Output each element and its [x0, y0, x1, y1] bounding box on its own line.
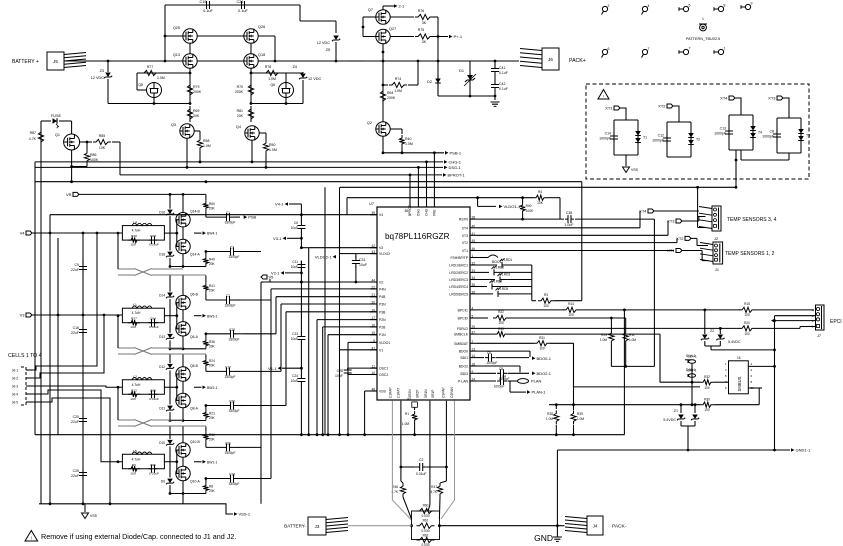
crossover twisted pair 3 — [134, 420, 152, 427]
svg-text:D1: D1 — [459, 69, 464, 73]
wire L5 loop links — [164, 461, 176, 463]
dashed option box — [586, 84, 809, 179]
svg-text:0.1uF: 0.1uF — [499, 71, 508, 75]
svg-text:VSS-1: VSS-1 — [239, 512, 251, 517]
wire FSH line with hook — [477, 257, 488, 259]
svg-text:1000pF: 1000pF — [494, 385, 505, 389]
svg-text:20K: 20K — [209, 206, 216, 210]
svg-text:GND1-1: GND1-1 — [796, 448, 811, 453]
svg-text:R8: R8 — [209, 485, 213, 489]
svg-text:4.7uH: 4.7uH — [132, 229, 141, 233]
svg-text:Q8-A: Q8-A — [190, 407, 199, 411]
svg-text:R47: R47 — [431, 485, 437, 489]
connector J1 temp sensors 12 — [713, 242, 723, 264]
wire Q18 gate bottom — [251, 103, 303, 105]
net PSB flag — [244, 215, 247, 219]
resistor R75 3K — [415, 34, 433, 39]
svg-text:R30: R30 — [704, 398, 710, 402]
wire BPCID line — [477, 317, 488, 319]
svg-text:R58: R58 — [203, 139, 209, 143]
net flag XT1 — [614, 106, 620, 110]
svg-text:J7: J7 — [817, 334, 821, 338]
diode D11 — [169, 395, 171, 405]
svg-text:FSRLD: FSRLD — [457, 327, 469, 331]
capacitor C12 3300pF — [227, 333, 238, 335]
wire SMBDAT line — [477, 342, 534, 344]
svg-text:4.7uH: 4.7uH — [132, 383, 141, 387]
connector J6 cells dashed — [21, 367, 26, 405]
test point X8 — [718, 6, 723, 11]
resistor R15 100 — [739, 307, 755, 312]
svg-text:1.0uF: 1.0uF — [565, 223, 574, 227]
resistor R22 100 — [493, 315, 509, 320]
svg-text:100: 100 — [744, 332, 750, 336]
test point X2 — [602, 6, 607, 11]
svg-text:Q8: Q8 — [138, 83, 143, 87]
wire gate columns upper FETs — [190, 43, 251, 54]
svg-text:R50: R50 — [269, 143, 275, 147]
net GND1-1 flag — [791, 448, 794, 452]
wire SMBCLK line — [477, 333, 494, 335]
svg-text:J6-5: J6-5 — [12, 401, 18, 405]
svg-text:D13: D13 — [159, 335, 165, 339]
svg-text:P4N: P4N — [379, 287, 386, 291]
svg-text:10K: 10K — [99, 146, 106, 150]
svg-text:22uF: 22uF — [71, 474, 79, 478]
svg-text:200K: 200K — [193, 90, 202, 94]
diode D14 column — [169, 276, 171, 292]
svg-text:Q6-B: Q6-B — [190, 293, 199, 297]
svg-text:22uF: 22uF — [71, 420, 79, 424]
connector J2 temp sensors 34 — [712, 206, 721, 231]
transformer T4 — [750, 126, 756, 131]
net flag BW4-1 — [203, 231, 206, 235]
svg-text:R60: R60 — [423, 504, 429, 508]
svg-text:1.0M: 1.0M — [268, 77, 276, 81]
svg-text:2-1: 2-1 — [399, 4, 406, 9]
svg-text:J3: J3 — [315, 524, 320, 529]
svg-text:10uF: 10uF — [359, 263, 367, 267]
transformer T2 — [688, 133, 694, 138]
svg-text:1.0M: 1.0M — [394, 89, 402, 93]
svg-text:C16: C16 — [73, 326, 79, 330]
capacitor C20 22uF — [82, 415, 84, 426]
capacitor C2 0.01uF — [416, 466, 427, 468]
resistor R58 1.0M — [194, 130, 200, 132]
svg-text:DSG-1: DSG-1 — [449, 165, 462, 170]
svg-text:CHG-1: CHG-1 — [449, 160, 462, 165]
svg-text:10uF: 10uF — [291, 226, 298, 230]
svg-text:C31: C31 — [359, 258, 365, 262]
svg-text:RSTN: RSTN — [459, 218, 469, 222]
warning triangle in box — [598, 90, 609, 100]
svg-text:20K: 20K — [209, 489, 216, 493]
net flag BW3-1 — [203, 314, 206, 318]
resistor R61 0.030 — [417, 523, 435, 528]
svg-text:Q3: Q3 — [171, 123, 176, 127]
wire V4 line — [50, 214, 377, 216]
diode D16 column — [169, 194, 171, 208]
resistor R39 1.0M — [571, 410, 576, 424]
svg-text:XT2: XT2 — [462, 241, 468, 245]
svg-text:V3-1: V3-1 — [273, 236, 282, 241]
svg-text:J6-4: J6-4 — [12, 393, 18, 397]
wire L4 loop links — [164, 232, 176, 234]
svg-text:PSB-1: PSB-1 — [450, 150, 462, 155]
transistor Q10-B — [176, 443, 190, 457]
net XT1 flag right — [676, 249, 682, 253]
svg-text:LRD3/ERC3: LRD3/ERC3 — [449, 278, 468, 282]
svg-text:V2: V2 — [379, 281, 383, 285]
wire loop T4 — [735, 98, 741, 115]
svg-text:1000pF: 1000pF — [652, 139, 664, 143]
svg-text:Q10-B: Q10-B — [190, 440, 201, 444]
svg-text:C41: C41 — [499, 66, 505, 70]
svg-text:3300pF: 3300pF — [229, 482, 240, 486]
svg-text:SR2P: SR2P — [416, 390, 420, 398]
crossover twisted pair 1 — [134, 269, 152, 276]
resistor R21 20K — [205, 406, 207, 410]
svg-text:Z4: Z4 — [293, 65, 297, 69]
svg-text:200K: 200K — [235, 90, 244, 94]
svg-text:P4B: P4B — [379, 295, 386, 299]
svg-text:BW1-1: BW1-1 — [207, 460, 217, 464]
svg-text:Q13: Q13 — [173, 53, 180, 57]
resistor R36 20K — [205, 334, 207, 338]
svg-text:TEMP SENSORS 3, 4: TEMP SENSORS 3, 4 — [727, 217, 777, 223]
svg-text:C26: C26 — [229, 400, 235, 404]
svg-text:J6-1: J6-1 — [12, 369, 18, 373]
wire P2B line — [323, 326, 377, 328]
wire BPCIC line — [477, 309, 564, 311]
svg-text:3K: 3K — [422, 21, 427, 25]
led LRD3 — [477, 279, 495, 281]
wire R23 R11 join — [611, 365, 654, 367]
test point X4 — [642, 6, 647, 11]
resistor R47 4.7K — [445, 467, 447, 481]
svg-text:R1: R1 — [405, 412, 409, 416]
svg-text:R46: R46 — [392, 485, 398, 489]
svg-text:!: ! — [31, 536, 32, 541]
capacitor C13 — [728, 127, 730, 138]
svg-text:XT1: XT1 — [462, 249, 468, 253]
wire XT2 line — [477, 242, 677, 244]
svg-text:EPCI: EPCI — [830, 319, 842, 325]
svg-text:GND: GND — [534, 533, 553, 543]
svg-text:3300pF: 3300pF — [229, 337, 240, 341]
svg-text:L4: L4 — [133, 221, 137, 225]
svg-text:OSC1: OSC1 — [379, 367, 388, 371]
svg-text:100: 100 — [130, 471, 135, 475]
wire top cap chain — [165, 4, 300, 6]
svg-text:PLAN: PLAN — [531, 379, 542, 384]
wire loop T1 — [620, 108, 626, 120]
wire XT4 line — [477, 227, 640, 229]
net flag XT3 — [777, 96, 783, 100]
svg-text:VSS: VSS — [631, 168, 639, 172]
wire smbdat along bottom — [573, 343, 575, 404]
svg-text:C14: C14 — [605, 132, 611, 136]
wire xfmr box feed vertical — [735, 186, 737, 188]
svg-text:D18: D18 — [159, 253, 165, 257]
svg-text:0.030: 0.030 — [422, 529, 430, 533]
op-amp U7 bq78PL116RGZR IC body — [377, 207, 470, 400]
svg-text:DSG: DSG — [416, 209, 420, 216]
svg-text:100K: 100K — [526, 209, 534, 213]
svg-text:C28: C28 — [337, 369, 343, 373]
svg-text:J2: J2 — [714, 237, 718, 241]
svg-text:V1: V1 — [379, 348, 383, 352]
svg-text:6: 6 — [608, 47, 610, 51]
svg-text:CHG: CHG — [425, 208, 429, 216]
transistor Q14-B — [176, 213, 190, 227]
led LRD1 — [477, 264, 497, 266]
svg-text:Q2: Q2 — [367, 121, 372, 125]
svg-text:3300pF: 3300pF — [229, 255, 240, 259]
capacitor C14 — [613, 132, 615, 143]
svg-text:Q14-A: Q14-A — [190, 253, 201, 257]
svg-text:C21: C21 — [237, 0, 244, 4]
svg-text:VLDO1-1: VLDO1-1 — [504, 204, 521, 209]
svg-text:R49: R49 — [209, 258, 215, 262]
vss arrow in box — [625, 155, 627, 166]
svg-text:C15: C15 — [200, 0, 207, 4]
wire left rail x41 fuse column — [40, 121, 42, 504]
svg-text:BATTERY +: BATTERY + — [12, 59, 39, 65]
svg-text:CSPAP: CSPAP — [442, 387, 446, 398]
resistor R31 100 — [534, 341, 550, 346]
transistor Q13 — [183, 54, 197, 68]
resistor R74 1.0M — [383, 84, 388, 86]
svg-text:12 VDC: 12 VDC — [317, 41, 331, 45]
svg-text:10uF: 10uF — [335, 374, 343, 378]
transistor Q3 — [180, 124, 194, 138]
svg-text:SMBUS: SMBUS — [737, 376, 742, 391]
svg-text:C24: C24 — [292, 374, 298, 378]
svg-text:CLK-1: CLK-1 — [687, 355, 697, 359]
svg-text:20K: 20K — [209, 262, 216, 266]
svg-text:R79: R79 — [193, 85, 199, 89]
net flag BW2-1 — [203, 385, 206, 389]
transistor Q2 — [376, 122, 390, 136]
svg-text:V4: V4 — [379, 213, 383, 217]
svg-text:T1: T1 — [643, 136, 647, 140]
svg-text:7: 7 — [648, 47, 650, 51]
svg-text:R37: R37 — [131, 317, 137, 321]
svg-text:R2: R2 — [407, 397, 411, 401]
resistor R20 100 — [739, 326, 755, 331]
svg-text:XT3: XT3 — [462, 234, 468, 238]
svg-text:T3: T3 — [806, 134, 810, 138]
svg-text:0.1uF: 0.1uF — [203, 9, 213, 13]
svg-text:22uF: 22uF — [71, 268, 79, 272]
wire gate tie Q10-B — [176, 450, 178, 474]
svg-text:C4: C4 — [502, 375, 506, 379]
wire left rail x50 — [49, 232, 51, 504]
wire smbclk drop — [659, 334, 661, 382]
capacitor C17 3300pF — [223, 370, 234, 372]
test point X7a — [642, 49, 647, 54]
net flag XT2 — [667, 104, 673, 108]
svg-text:20K: 20K — [193, 114, 200, 118]
svg-text:VLDO2-1: VLDO2-1 — [315, 254, 332, 259]
capacitor C7 3300pF — [223, 299, 234, 301]
wire P3B line — [286, 311, 377, 313]
svg-text:P3N: P3N — [379, 303, 386, 307]
svg-text:C11: C11 — [292, 260, 298, 264]
svg-text:22uF: 22uF — [71, 331, 79, 335]
svg-text:R85: R85 — [99, 134, 105, 138]
svg-text:R60: R60 — [209, 202, 215, 206]
svg-text:PLAN-1: PLAN-1 — [532, 390, 547, 395]
svg-text:R76: R76 — [418, 9, 424, 13]
svg-text:10uF: 10uF — [291, 379, 298, 383]
resistor R40b 100K — [520, 202, 525, 214]
transistor Q6 — [279, 83, 294, 98]
wire main positive bus — [64, 60, 183, 62]
svg-text:R70: R70 — [237, 85, 243, 89]
diode D13 — [169, 323, 171, 333]
svg-text:U7: U7 — [369, 202, 374, 206]
svg-text:1000pF: 1000pF — [714, 132, 726, 136]
inductor loop L4 — [122, 226, 164, 241]
svg-text:C8: C8 — [770, 130, 775, 134]
wire left rail x58 — [57, 238, 59, 435]
net 2-1 flag — [382, 6, 384, 10]
resistor R78 1.0M — [251, 72, 303, 74]
net V2-1 flag — [281, 271, 284, 275]
wire P3N line — [281, 303, 377, 305]
svg-text:C20: C20 — [73, 415, 79, 419]
resistor R87 4.7K — [38, 129, 43, 145]
net flags P- region — [518, 60, 520, 62]
zener Z4 — [302, 72, 304, 73]
capacitor C3 3300pF — [227, 251, 238, 253]
transistor Q10-A — [176, 466, 190, 480]
svg-text:R36: R36 — [209, 340, 215, 344]
test point X5 — [683, 6, 688, 11]
svg-text:C9: C9 — [75, 263, 80, 267]
wire loop T3 — [783, 98, 789, 118]
wire Q14-A source — [182, 254, 184, 267]
svg-text:Q18: Q18 — [258, 53, 265, 57]
svg-text:4.7K: 4.7K — [430, 490, 437, 494]
svg-text:10uF: 10uF — [291, 337, 298, 341]
svg-text:XT2: XT2 — [658, 104, 666, 109]
svg-text:R40: R40 — [526, 204, 532, 208]
svg-text:100: 100 — [539, 347, 545, 351]
svg-text:4.7uH: 4.7uH — [132, 457, 141, 461]
wire J2 common vertical — [697, 187, 699, 227]
svg-text:20K: 20K — [209, 416, 216, 420]
diode D18 — [169, 241, 171, 251]
connector J7 EPCI — [816, 305, 825, 330]
svg-text:BDI1: BDI1 — [460, 356, 468, 360]
net BDO2-1 flag — [532, 372, 535, 376]
svg-text:OSC2: OSC2 — [379, 373, 388, 377]
ground pack — [491, 102, 500, 106]
wire P1N line — [328, 334, 377, 336]
capacitor C6 1000pF — [477, 357, 484, 359]
wire mid band verticals — [324, 187, 326, 434]
svg-text:D11: D11 — [159, 407, 165, 411]
svg-text:C42: C42 — [499, 82, 505, 86]
svg-text:BDO2-1: BDO2-1 — [537, 371, 552, 376]
resistor R64 200K — [380, 88, 385, 104]
svg-text:12 VDC: 12 VDC — [308, 77, 322, 81]
test point TP1 pattern — [700, 24, 707, 31]
svg-text:SMBCLK: SMBCLK — [454, 333, 469, 337]
wire gate tie Q8-B — [176, 374, 178, 401]
inductor loop L1 — [122, 308, 164, 323]
svg-text:D12: D12 — [159, 365, 165, 369]
svg-text:DAT-1: DAT-1 — [687, 369, 696, 373]
svg-text:12 VDC: 12 VDC — [91, 76, 105, 80]
svg-text:R38: R38 — [547, 412, 553, 416]
smbus IC U3 — [729, 361, 749, 394]
svg-text:5.4VDC: 5.4VDC — [663, 418, 676, 422]
svg-text:1.0M: 1.0M — [600, 338, 607, 342]
svg-text:10K: 10K — [537, 201, 544, 205]
wire Q10-A source — [182, 481, 184, 494]
svg-text:J1: J1 — [715, 268, 719, 272]
capacitor C41 — [494, 61, 496, 66]
resistor R4 10K — [533, 195, 547, 200]
svg-text:R31: R31 — [539, 336, 545, 340]
svg-text:R12: R12 — [131, 388, 137, 392]
wire V2 line — [261, 281, 377, 283]
wire gate tie Q14-B — [176, 220, 178, 247]
svg-text:R3: R3 — [544, 293, 548, 297]
svg-text:R21: R21 — [209, 412, 215, 416]
svg-text:Q27: Q27 — [389, 27, 396, 31]
svg-text:1.0M: 1.0M — [405, 142, 413, 146]
svg-text:D16: D16 — [159, 211, 165, 215]
svg-text:LRD1: LRD1 — [504, 258, 512, 262]
svg-text:BW2-1: BW2-1 — [207, 386, 217, 390]
wire Q27 source column — [382, 44, 384, 122]
svg-text:P3B: P3B — [379, 310, 386, 314]
net V3 flag — [26, 313, 32, 317]
capacitor C10 1000pF — [477, 372, 496, 374]
transistor Q8-A — [176, 393, 190, 407]
transformer T3 — [798, 129, 804, 134]
svg-text:BDO0-1: BDO0-1 — [537, 356, 552, 361]
svg-text:P+-1: P+-1 — [454, 34, 463, 39]
svg-text:7: 7 — [689, 47, 691, 51]
svg-text:20K: 20K — [209, 288, 216, 292]
connector J5 BATTERY+ — [47, 52, 64, 70]
wire box bottom exit — [735, 150, 737, 187]
wire P2N line — [317, 319, 377, 321]
wire pack minus feed — [439, 525, 564, 527]
svg-text:0.01uF: 0.01uF — [416, 472, 427, 476]
capacitor C23 10uF — [300, 333, 302, 344]
svg-text:3K: 3K — [422, 40, 427, 44]
resistor R11 1.0M — [625, 318, 627, 330]
resistor R1 1.0M with R2 box — [412, 402, 418, 407]
wire XT3 line — [477, 234, 668, 236]
svg-text:BPROT-1: BPROT-1 — [448, 173, 466, 178]
svg-text:XT4: XT4 — [462, 226, 468, 230]
svg-text:9: 9 — [751, 2, 753, 6]
wire battery minus feed — [348, 525, 412, 527]
svg-text:C12: C12 — [229, 328, 235, 332]
svg-text:C1RAP: C1RAP — [388, 387, 392, 398]
svg-text:C1RAT: C1RAT — [397, 388, 401, 398]
svg-text:V4-1: V4-1 — [275, 202, 284, 207]
svg-text:2: 2 — [608, 4, 610, 8]
